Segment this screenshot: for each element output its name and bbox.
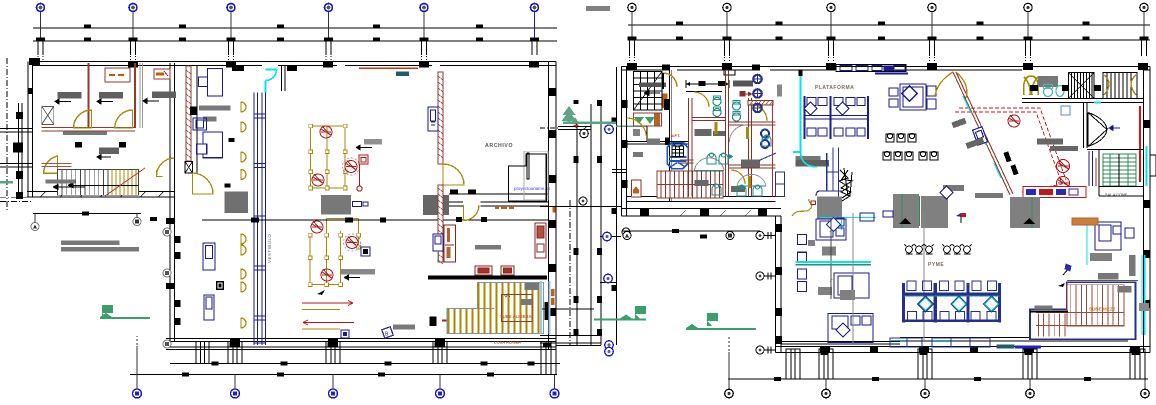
black plant arrows <box>899 218 1035 224</box>
NW stair grid <box>634 72 663 111</box>
green line thin <box>616 126 647 127</box>
blue arrow doors <box>1109 126 1120 131</box>
south wall upper-left <box>622 208 782 210</box>
light blue stairwell wall <box>541 281 550 334</box>
gray bar v1 <box>199 106 231 111</box>
gray bar under wall <box>63 132 107 136</box>
door jamb blacks <box>229 138 235 142</box>
dimension line vert1 <box>852 213 854 343</box>
ticks on R2 <box>676 37 1090 41</box>
east wall columns <box>1144 120 1150 308</box>
blue door bottom <box>776 172 785 197</box>
cup chairs <box>904 245 971 254</box>
window mullions top <box>836 65 908 74</box>
stair treads lower-left <box>449 308 473 333</box>
lobby walls <box>1087 150 1144 197</box>
brown sq bath <box>740 91 752 97</box>
ticks <box>774 377 1091 381</box>
bath wall horizontals <box>692 118 726 121</box>
gray blocks pillars <box>893 194 919 228</box>
gray bits nw <box>633 139 660 158</box>
bottom wall columns <box>230 339 445 347</box>
person arcs gray <box>695 125 767 186</box>
section mark B green <box>100 305 150 319</box>
band dashdot vertical <box>569 200 571 345</box>
red hatch circle u1 <box>320 126 332 138</box>
strip black block <box>190 107 197 116</box>
door arc west <box>627 118 647 138</box>
gray bar v2 <box>203 116 217 121</box>
desk hall2 <box>393 325 415 330</box>
cyan pyme boundary <box>820 217 876 219</box>
south wall of west wing <box>27 191 174 193</box>
bubble F <box>1140 3 1149 56</box>
wall columns east <box>549 88 556 316</box>
small red box 1 <box>475 266 492 275</box>
red blue flag <box>956 213 966 223</box>
west stair <box>58 170 139 196</box>
red hatch circle u3 <box>312 174 324 186</box>
desks gray mid <box>943 185 1003 198</box>
blue chair archivo <box>433 234 443 260</box>
tree big <box>562 106 580 123</box>
west wall columns <box>622 100 783 344</box>
dim line x831 <box>830 219 833 299</box>
dark teal box <box>396 72 409 77</box>
olive stands <box>715 122 752 188</box>
stair brown room rect <box>502 294 532 321</box>
urinal rings <box>753 75 761 112</box>
bubble 5 <box>420 4 429 61</box>
stair well outline blue <box>447 282 544 333</box>
desk hall1 <box>356 139 382 150</box>
ne stair <box>1103 73 1137 99</box>
stair red mark <box>442 319 447 321</box>
band horizontals low <box>540 309 601 346</box>
top wall inner <box>33 65 556 67</box>
nw grid gray bar <box>639 82 666 87</box>
nw zone wall <box>627 142 689 145</box>
stair left black column <box>430 316 437 326</box>
GRID-BOTTOM-RIGHT <box>725 337 1150 398</box>
west desks upper <box>798 218 847 262</box>
top wall outer <box>33 61 556 63</box>
west wall <box>27 62 29 198</box>
hatch column X <box>185 162 193 174</box>
blue item next col1 <box>353 202 369 207</box>
red box symbol <box>357 155 368 191</box>
small red box 2 <box>501 266 514 275</box>
red hatch circle u2 <box>343 158 360 175</box>
bubble 1 <box>36 4 45 61</box>
stair gray blob2 <box>521 299 532 305</box>
red hatch circle l2 <box>344 234 361 251</box>
big gray block <box>225 191 249 213</box>
stair gray blob top <box>525 283 540 290</box>
red dashed security lines <box>955 108 1066 192</box>
sofa row bottom <box>890 338 990 347</box>
door arc 2 <box>115 110 133 128</box>
ARCHIVO ROOM <box>428 72 556 275</box>
grid stub south dashdot <box>0 197 33 201</box>
LEFT-BLOCK <box>0 58 560 366</box>
PYME LOWER ZONE <box>796 213 1150 349</box>
hatched wall strip <box>186 66 191 161</box>
blue desk 2 <box>197 132 223 158</box>
bubble E <box>1024 3 1033 62</box>
glazing jamb <box>799 70 803 76</box>
cyan teal divider <box>796 261 872 263</box>
counter navy frame <box>816 148 842 197</box>
red hatch circle l3 <box>321 269 333 281</box>
diamond sw <box>836 323 850 337</box>
grid line L2 <box>33 40 557 42</box>
west stub wall <box>612 170 627 173</box>
grid line L1 <box>33 27 557 29</box>
waiting chairs r1 <box>886 133 916 142</box>
hatched strip archivo lower <box>438 185 443 264</box>
cistern pump <box>667 143 688 169</box>
GRID-BOTTOM-LEFT <box>130 336 559 398</box>
elevator hatch <box>1069 73 1095 99</box>
right wing desks <box>1095 222 1134 250</box>
green stub west <box>0 181 13 183</box>
porch column boxes <box>228 342 556 375</box>
black items diagonal <box>1003 151 1018 175</box>
desk cubicles 1 <box>805 96 869 139</box>
band bubble c1 blue <box>604 274 613 283</box>
closet shelves <box>509 151 548 201</box>
olive fence lower <box>310 219 359 285</box>
svg-text:VESTIBULO: VESTIBULO <box>267 234 272 263</box>
svg-text:N.P.T.: N.P.T. <box>671 134 680 138</box>
teal base lines <box>694 171 766 187</box>
gray bar top right of left grid <box>586 6 610 11</box>
band wall v2 pair <box>590 104 592 345</box>
stair mid blue line <box>447 307 494 309</box>
diagonal partition <box>953 72 1013 195</box>
bubble C <box>827 3 836 62</box>
cyan vertical east <box>1146 146 1148 186</box>
bottom bubbles right <box>725 337 1150 398</box>
blue bars bottom <box>997 345 1041 349</box>
svg-text:LOSA ALIGER: LOSA ALIGER <box>494 340 521 345</box>
black cols elevator row <box>1030 85 1127 91</box>
black arrow small <box>317 290 325 295</box>
green stair rail <box>1118 154 1120 186</box>
gray square band <box>633 129 640 136</box>
PLATAFORMA AREA <box>627 65 939 231</box>
MIDDLE-BAND <box>540 67 647 356</box>
band wall v3 <box>616 67 618 345</box>
bottom wall inner <box>781 338 1128 345</box>
red hatch circle l1 <box>311 221 323 233</box>
orange mark east <box>553 207 556 213</box>
band bubble a2 blue <box>605 125 614 134</box>
archivo door arc 2 <box>464 205 480 221</box>
svg-text:ARCHIVO: ARCHIVO <box>485 143 513 149</box>
brown hatch band top <box>748 101 773 106</box>
ticks on L1 <box>84 25 483 29</box>
green stair <box>1103 154 1136 186</box>
bottom bubbles <box>133 336 560 398</box>
blue sq light <box>1061 106 1070 115</box>
bathroom block <box>680 70 785 197</box>
sofa set <box>889 84 936 110</box>
wing bubble A <box>31 214 39 231</box>
brown dash bar <box>495 206 514 209</box>
red plus <box>574 123 579 128</box>
door arc 1 <box>74 110 92 128</box>
cyan glazing arc overlay <box>801 140 818 167</box>
X closet <box>42 106 54 124</box>
mid columns <box>75 142 82 148</box>
red arrows lines <box>302 301 354 326</box>
cyan mark small <box>1094 102 1101 104</box>
wall columns (black) top <box>29 58 539 71</box>
teal wc ne <box>1044 85 1065 97</box>
entrance side wall <box>282 66 286 91</box>
gray bar archivo <box>475 245 501 250</box>
NE ZONE <box>860 72 1147 228</box>
green B mark mid <box>594 306 646 321</box>
stair right black column <box>545 302 550 320</box>
olive lines <box>302 310 340 330</box>
vestibule west wall <box>196 66 198 173</box>
diamond desk1 <box>826 217 840 231</box>
bubble 3 <box>227 4 236 61</box>
south wall upper-left columns <box>640 209 767 216</box>
wing bubble B <box>133 214 141 226</box>
west dashdot line <box>6 58 8 212</box>
lower grid leader right <box>622 230 761 232</box>
wall columns west wing wall <box>166 218 181 325</box>
band bubble d2 blue <box>605 347 614 356</box>
bath wall verticals <box>689 98 693 197</box>
sw stair rail <box>671 171 675 198</box>
svg-text:proyectouname.po: proyectouname.po <box>514 186 551 191</box>
big stair SE <box>1030 255 1149 339</box>
door arc 3 <box>44 156 58 173</box>
stair treads full-height <box>479 282 539 333</box>
porch line <box>170 363 560 365</box>
band bubble b1 <box>579 197 587 205</box>
GRID-TOP-LEFT <box>33 4 610 61</box>
blue diamond mid <box>940 186 953 199</box>
svg-text:SUBE ALIGERA: SUBE ALIGERA <box>500 314 532 319</box>
grid line R1 <box>628 24 1150 26</box>
cyan wing line <box>1086 218 1088 265</box>
svg-text:PLATAFORMA: PLATAFORMA <box>815 85 854 91</box>
brown wall y129 <box>42 128 135 132</box>
partition gray x141 <box>140 63 143 128</box>
corridor dim line <box>686 80 729 88</box>
VESTIBULE <box>185 66 277 345</box>
desk A2 <box>97 92 123 104</box>
partition brown x135 <box>134 63 136 128</box>
GRID-TOP-RIGHT <box>628 3 1151 62</box>
wc fixtures cell2 <box>733 101 741 122</box>
person symbols <box>707 135 771 196</box>
spiral stair olive doors <box>1024 76 1039 95</box>
partition brown x88 <box>88 63 90 128</box>
olive doors top diagonal <box>935 72 967 98</box>
top wall notch right <box>724 70 735 75</box>
gray column hall1 <box>321 195 351 215</box>
planter brown sw <box>632 180 642 197</box>
blue red verticals <box>1089 151 1096 186</box>
stair red diagonal <box>105 168 145 196</box>
entrance cyan door <box>265 70 276 93</box>
landing beam <box>428 276 547 280</box>
west wall lower <box>775 216 777 353</box>
right wing gray <box>1090 253 1112 261</box>
red hatch circle r3 <box>1057 177 1070 190</box>
east wall <box>1143 67 1145 353</box>
pyme teal line <box>904 295 1000 297</box>
ne stair olive curls <box>1104 75 1136 95</box>
bath east wall red <box>772 103 774 197</box>
CENTRAL HALL <box>157 68 549 339</box>
blue box column <box>193 118 207 130</box>
blue box near circle <box>361 247 370 256</box>
red hatch circle r1 <box>1008 115 1020 127</box>
svg-text:PYME: PYME <box>928 262 944 268</box>
band bubble a1 <box>580 126 589 138</box>
band horizontal y206 <box>540 206 621 208</box>
NW stair door arc <box>663 73 677 89</box>
bottom grid line <box>130 374 557 376</box>
gray blob desk2 <box>840 290 855 300</box>
planter shelf <box>634 113 662 126</box>
desk A3 <box>143 92 176 104</box>
hall south wall <box>449 194 548 206</box>
brown dresser <box>1072 218 1098 225</box>
arrow under bar <box>53 185 85 190</box>
plant scribble <box>839 168 852 201</box>
navy diag counter <box>759 153 776 161</box>
rb bubble s2 <box>726 232 734 240</box>
red wall segment <box>42 164 72 167</box>
brown cabinet right <box>535 223 546 258</box>
corridor line2 <box>686 91 722 93</box>
porch columns <box>196 342 209 364</box>
gray counters ne <box>951 118 1078 151</box>
olive fence upper <box>311 126 346 188</box>
interior wall x670 <box>670 70 672 202</box>
dimension line vert2 <box>923 213 925 340</box>
gray counter L <box>796 156 843 219</box>
red hatch circle r2 <box>1057 160 1070 173</box>
grid line R2 <box>628 39 1150 41</box>
orange desk icon room2 <box>154 69 170 79</box>
sw cubicle <box>828 314 873 343</box>
ramp gray bars outside <box>61 240 119 244</box>
gray bar near stair <box>46 179 76 183</box>
blue plug <box>341 330 349 338</box>
wc fixtures cell1 <box>713 96 721 117</box>
olive chairs column lower <box>241 234 246 328</box>
pyme cubicles <box>904 281 1000 323</box>
navy rings right cell <box>761 130 769 149</box>
green line thick <box>563 121 616 124</box>
waiting chairs r2 <box>883 151 938 160</box>
red vertical east <box>1139 106 1141 182</box>
gray blobs desk1 <box>808 240 836 295</box>
blue box on diagonal <box>973 127 988 145</box>
blue screen partition <box>254 93 266 346</box>
inner line bathroom bottom <box>627 197 776 202</box>
ticks on R1 <box>676 22 1090 26</box>
MAIN STAIRS <box>428 276 549 334</box>
orange strip under top wall <box>359 68 418 70</box>
fire cabinet blue <box>428 107 438 131</box>
cubicle diamonds <box>804 102 849 115</box>
black chair low <box>216 281 224 290</box>
nw zone vert <box>646 126 648 142</box>
blue diamond B <box>382 327 394 339</box>
wing bottom leader line <box>33 213 141 215</box>
hatched strip archivo <box>438 72 443 164</box>
SW stairs right block <box>657 171 723 198</box>
east pilaster <box>1150 155 1156 176</box>
stair arrow <box>68 183 138 188</box>
vest door arc 1 <box>193 173 214 194</box>
bubble B <box>723 3 732 62</box>
west wall upper <box>621 67 623 217</box>
west wall squares <box>13 88 33 199</box>
west grid stub y128 <box>0 129 32 133</box>
small desks row <box>860 211 893 221</box>
band horizontal y236 <box>600 236 621 238</box>
table dashes <box>109 74 124 76</box>
band bubble b3 <box>622 228 630 236</box>
ticks <box>182 373 494 377</box>
bubble 2 <box>129 4 138 61</box>
band wall v1 <box>576 122 578 345</box>
brown table room1 <box>105 68 130 82</box>
porch column boxes right <box>786 349 1145 379</box>
band horizontal y127 <box>558 127 591 130</box>
gray block east bath <box>777 85 782 97</box>
wing wall hatch <box>40 192 164 198</box>
interior wall ne <box>1084 103 1088 149</box>
archivo door arc <box>443 164 464 185</box>
pushpin <box>1063 264 1071 275</box>
pyme diamonds <box>918 296 1000 312</box>
blue cabinet low2 <box>204 295 214 320</box>
rb bubble s1 <box>623 232 631 240</box>
bubble A <box>628 3 637 62</box>
porch tick line1 ticks <box>212 362 535 366</box>
bath door arcs <box>694 92 709 107</box>
olive door to wing <box>157 158 175 176</box>
band bubble d1 blue <box>605 341 614 350</box>
red box cable <box>811 201 816 205</box>
east wall <box>548 62 550 350</box>
right grid bubbles <box>628 3 1149 62</box>
green lines pillars <box>902 194 1032 228</box>
nw orange bar <box>663 94 668 109</box>
cyan glazing <box>793 76 817 167</box>
gray counters bath <box>695 129 761 192</box>
olive chairs column upper <box>241 102 246 180</box>
top wall <box>622 66 1151 68</box>
blue desk 1 <box>199 69 223 97</box>
wall bubbles on wing/hall wall <box>163 228 171 348</box>
RIGHT-BLOCK <box>0 63 1156 354</box>
svg-text:SALA CONF: SALA CONF <box>1105 193 1128 197</box>
